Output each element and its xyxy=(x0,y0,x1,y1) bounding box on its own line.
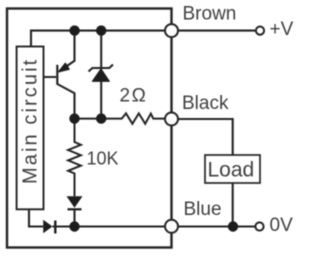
svg-text:Load: Load xyxy=(208,159,255,182)
svg-text:Brown: Brown xyxy=(183,4,237,25)
svg-text:Blue: Blue xyxy=(184,199,222,220)
svg-text:+V: +V xyxy=(270,19,294,40)
svg-text:Main circuit: Main circuit xyxy=(20,58,42,184)
svg-text:10K: 10K xyxy=(87,149,119,169)
svg-text:Black: Black xyxy=(182,93,229,114)
svg-text:2 Ω: 2 Ω xyxy=(120,85,146,106)
svg-text:0V: 0V xyxy=(270,215,294,236)
